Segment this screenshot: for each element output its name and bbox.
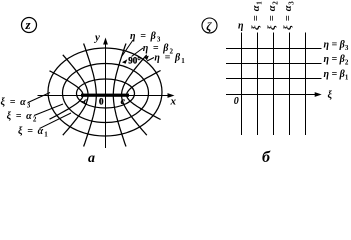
svg-text:ξ = α3: ξ = α3	[1, 97, 32, 110]
svg-text:ξ: ξ	[328, 90, 333, 101]
svg-text:ξ = α2: ξ = α2	[7, 111, 38, 124]
svg-text:ξ = α2: ξ = α2	[267, 1, 280, 30]
svg-text:c: c	[121, 96, 125, 106]
svg-text:x: x	[170, 95, 177, 107]
svg-text:а: а	[88, 151, 95, 166]
svg-text:0: 0	[99, 96, 104, 106]
svg-text:ζ: ζ	[206, 19, 212, 33]
svg-text:90°: 90°	[128, 56, 141, 66]
svg-text:ξ = α1: ξ = α1	[18, 126, 49, 139]
svg-text:z: z	[25, 17, 32, 32]
svg-text:ξ = α3: ξ = α3	[283, 1, 296, 30]
svg-text:-c: -c	[81, 96, 88, 106]
svg-text:0: 0	[234, 96, 239, 107]
svg-text:б: б	[262, 149, 271, 166]
svg-text:η = β1: η = β1	[154, 53, 185, 66]
svg-text:ξ = α1: ξ = α1	[251, 1, 264, 30]
svg-text:η: η	[238, 20, 244, 31]
svg-text:η = β3: η = β3	[130, 31, 161, 44]
svg-text:y: y	[93, 32, 100, 44]
